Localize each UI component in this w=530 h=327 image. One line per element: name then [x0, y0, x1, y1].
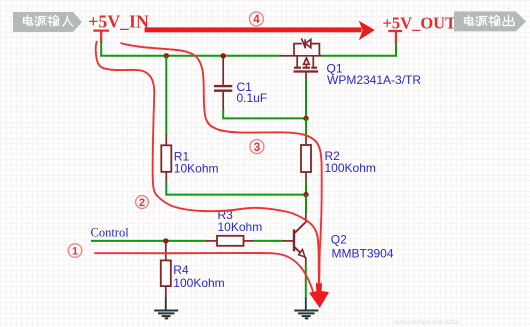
wire gate node to R2	[305, 118, 307, 135]
glyph 电	[24, 16, 33, 26]
transistor Q1 P-MOSFET	[280, 38, 323, 79]
base bar	[293, 229, 295, 251]
svg-text:2: 2	[139, 197, 145, 209]
power port +5V_OUT	[388, 31, 402, 44]
wire main rail	[100, 55, 280, 57]
glyph 输	[48, 16, 59, 27]
svg-text:3: 3	[254, 142, 260, 154]
emitter diagonal	[295, 247, 306, 258]
svg-text:www.elecfans.com dzfsy: www.elecfans.com dzfsy	[393, 320, 459, 326]
gate bar	[294, 70, 319, 72]
svg-text:100Kohm: 100Kohm	[173, 276, 224, 290]
svg-text:100Kohm: 100Kohm	[325, 161, 376, 175]
annotation line 1	[94, 253, 313, 294]
channel stubs	[297, 56, 313, 67]
annotation big arrowhead	[309, 291, 329, 308]
wire gate to node	[305, 79, 307, 118]
collector pin	[305, 213, 307, 223]
wire node to Q2 collector	[305, 195, 307, 214]
glyph 电	[465, 16, 474, 26]
left source pin	[280, 55, 295, 57]
svg-text:WPM2341A-3/TR: WPM2341A-3/TR	[327, 73, 421, 87]
body diode loop	[294, 44, 319, 56]
glyph 出	[503, 16, 514, 26]
circled number 3	[250, 140, 264, 154]
resistor R3	[206, 236, 255, 246]
annotation thick arrow 4	[145, 21, 375, 40]
glyph 源	[35, 17, 46, 27]
junction node rail/R1	[164, 53, 169, 58]
glyph 输	[489, 16, 500, 27]
junction node gate/C1/R2	[303, 116, 308, 121]
junction node R1/R2/collector	[303, 192, 308, 197]
resistor R2	[301, 135, 311, 183]
junction node rail/C1	[221, 53, 226, 58]
sheet exit label 电源输出	[454, 12, 526, 32]
gate pin	[305, 72, 307, 80]
wire R2 bottom	[305, 182, 307, 195]
substrate arrow	[305, 64, 307, 68]
svg-text:Control: Control	[91, 226, 130, 240]
wire Q1 drain to +5V_OUT	[322, 43, 396, 56]
wire R3 to Q2 base	[254, 240, 284, 242]
ground GND1 under R4	[154, 298, 178, 319]
svg-text:10Kohm: 10Kohm	[174, 162, 219, 176]
base pin	[283, 240, 295, 242]
wire Control to R3	[91, 240, 206, 242]
channel line	[294, 55, 319, 57]
wire Q2 emitter down	[305, 264, 307, 298]
capacitor C1	[214, 57, 232, 111]
svg-text:+5V_OUT: +5V_OUT	[383, 14, 457, 33]
emitter arrowhead	[299, 250, 305, 257]
circled number 2	[136, 196, 149, 210]
collector diagonal	[295, 222, 306, 233]
annotation curve 3	[121, 43, 322, 293]
svg-text:+5V_IN: +5V_IN	[88, 11, 149, 31]
resistor R1	[161, 135, 171, 183]
wire C1 bottom to gate node	[223, 110, 306, 119]
circled number 4	[249, 12, 263, 26]
power port +5V_IN	[93, 31, 109, 43]
transistor Q2 NPN	[283, 213, 306, 266]
body diode triangle	[305, 39, 311, 47]
wire +5V_IN to rail	[100, 42, 102, 56]
glyph 入	[63, 16, 73, 26]
glyph 源	[476, 17, 487, 27]
wire R1 top	[165, 56, 167, 136]
body diode bar+slash	[301, 38, 305, 48]
sheet entry label 电源输入	[13, 12, 82, 32]
svg-text:R4: R4	[173, 263, 189, 277]
wire R1 bottom to node	[166, 182, 306, 195]
circled number 1	[68, 244, 82, 258]
svg-text:1: 1	[72, 246, 78, 258]
svg-text:0.1uF: 0.1uF	[237, 91, 268, 105]
resistor R4	[161, 242, 171, 298]
svg-text:10Kohm: 10Kohm	[218, 220, 263, 234]
ground GND2 under Q2	[294, 298, 318, 319]
svg-text:MMBT3904: MMBT3904	[332, 247, 394, 261]
emitter pin	[305, 258, 307, 266]
channel contact bars	[294, 67, 317, 69]
svg-text:Q2: Q2	[331, 233, 347, 247]
svg-text:4: 4	[253, 14, 260, 26]
annotation curve 2	[96, 41, 319, 293]
right drain pin	[319, 55, 322, 57]
junction node Control/R4	[163, 238, 168, 243]
